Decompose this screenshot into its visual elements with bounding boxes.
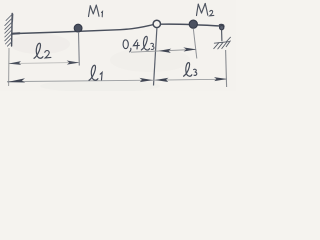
dimension line l1-l3 bottom bbox=[7, 79, 227, 81]
arrow 0.4l3 left bbox=[159, 49, 172, 53]
arrow l2 left bbox=[8, 61, 21, 65]
label M1 bbox=[89, 5, 103, 17]
rod tip knob bbox=[220, 23, 224, 26]
mass M1 ball bbox=[74, 24, 82, 32]
right support ground hatch bbox=[214, 37, 231, 49]
extension line under pulley bbox=[154, 28, 157, 86]
extension line under M2 bbox=[193, 29, 197, 59]
right support link bbox=[221, 30, 223, 41]
label 0.4 l3 bbox=[123, 36, 154, 52]
arrow 0.4l3 right bbox=[183, 47, 196, 51]
paper tone bbox=[0, 0, 236, 91]
wall (left fixed support) bbox=[5, 14, 13, 47]
extension line under M1 bbox=[78, 32, 81, 66]
arrow l3 right bbox=[214, 77, 227, 81]
pulley pivot circle bbox=[153, 20, 160, 27]
arrow l3 left bbox=[155, 78, 168, 82]
arrow l2 right bbox=[67, 61, 80, 65]
right end hinge circle bbox=[220, 26, 224, 30]
arrow l1 left bbox=[7, 78, 26, 82]
label l2 bbox=[34, 43, 51, 58]
label l1 bbox=[89, 65, 102, 80]
dimension line l2 bbox=[9, 63, 79, 64]
label M2 bbox=[197, 4, 214, 16]
wire rod beam right part bbox=[161, 24, 224, 26]
rod-wall joint bbox=[12, 32, 19, 35]
wire rod beam bbox=[13, 25, 153, 34]
dimension line 0.4l3 bbox=[131, 49, 196, 52]
mass M2 ball bbox=[189, 20, 197, 28]
label l3 bbox=[184, 63, 197, 77]
extension line right bbox=[226, 50, 227, 87]
extension line left bbox=[8, 48, 10, 86]
arrow l1 right bbox=[140, 78, 153, 82]
